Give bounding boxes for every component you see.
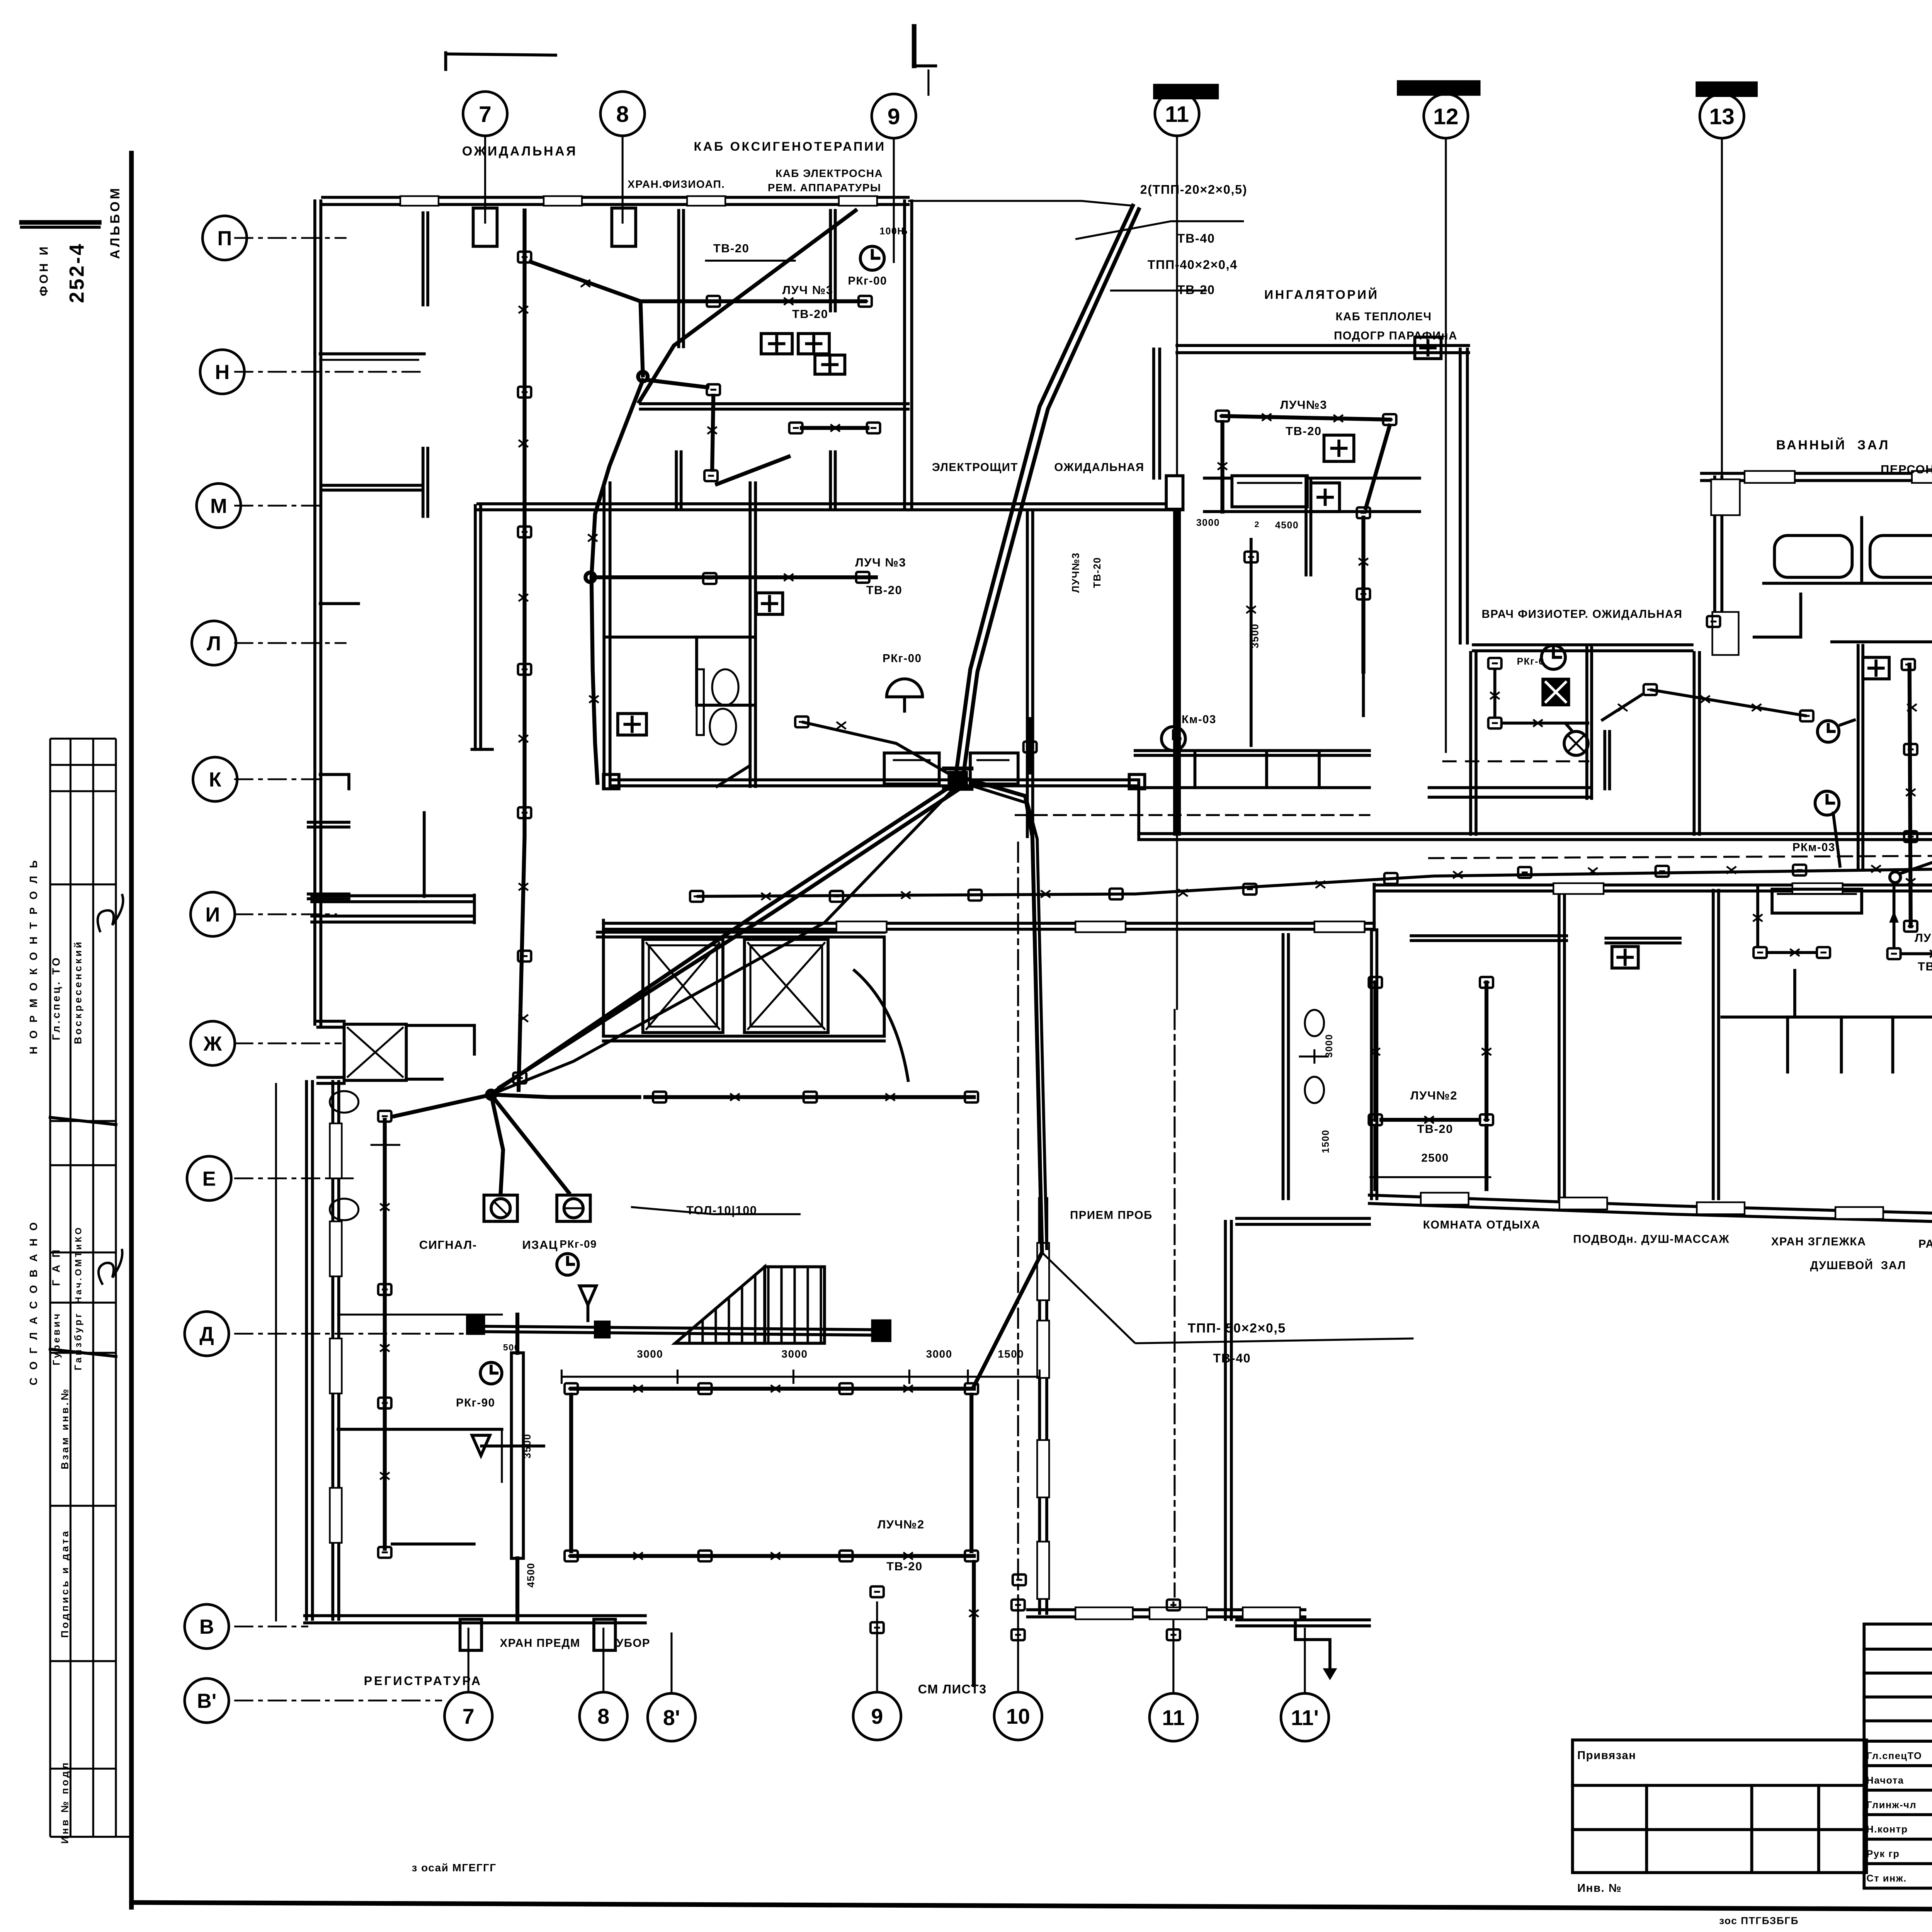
svg-text:ПОДОГР ПАРАФИнА: ПОДОГР ПАРАФИнА: [1334, 330, 1458, 342]
svg-text:ОЖИДАЛЬНАЯ: ОЖИДАЛЬНАЯ: [1054, 461, 1144, 474]
svg-text:11': 11': [1291, 1706, 1319, 1730]
window bay rect: [1772, 889, 1862, 913]
svg-text:ТПП-40×2×0,4: ТПП-40×2×0,4: [1148, 258, 1238, 272]
svg-text:И: И: [206, 903, 220, 926]
svg-text:100Њ: 100Њ: [879, 226, 908, 237]
svg-text:ТПП- 50×2×0,5: ТПП- 50×2×0,5: [1188, 1321, 1286, 1336]
svg-text:ТВ-20: ТВ-20: [1177, 283, 1215, 297]
svg-text:ХРАН ЗГЛЕЖКА: ХРАН ЗГЛЕЖКА: [1771, 1235, 1866, 1248]
svg-text:4500: 4500: [525, 1563, 536, 1588]
svg-text:Инв № подл: Инв № подл: [59, 1760, 70, 1844]
partition electroshield x=862: [1027, 510, 1028, 837]
bath hall right wiring: [1910, 665, 1911, 926]
svg-text:ЛУЧ№3: ЛУЧ№3: [1070, 552, 1081, 593]
svg-text:Н: Н: [215, 361, 230, 384]
svg-text:2: 2: [1254, 519, 1260, 529]
bath hall outline: [1702, 480, 1932, 481]
svg-text:13: 13: [1709, 104, 1735, 129]
svg-text:Начота: Начота: [1866, 1775, 1904, 1786]
corridor dashed duct line: [1016, 815, 1369, 815]
dim 2500: [1369, 1177, 1491, 1177]
svg-text:Л: Л: [207, 632, 221, 655]
bottom-right block bottom wall: [1369, 1195, 1932, 1216]
inhalatory block: [1177, 352, 1469, 353]
svg-text:ТВ-20: ТВ-20: [1286, 424, 1322, 438]
node at lower-left: [493, 786, 956, 1094]
svg-text:ХРАН ПРЕДМ: ХРАН ПРЕДМ: [500, 1637, 580, 1650]
svg-text:С О Г Л А С О В А Н О: С О Г Л А С О В А Н О: [27, 1220, 39, 1385]
central zone left wall x=508: [604, 483, 605, 786]
svg-text:РКг-0: РКг-0: [1517, 656, 1545, 667]
sheet bottom border: [131, 1903, 1932, 1912]
svg-text:Гл.спец. ТО: Гл.спец. ТО: [50, 956, 62, 1040]
svg-text:ОЖИДАЛЬНАЯ: ОЖИДАЛЬНАЯ: [462, 144, 578, 158]
signal room devices: [491, 1095, 503, 1193]
svg-text:П: П: [217, 227, 232, 250]
svg-text:К: К: [209, 769, 222, 791]
lower mid-block partitions: [1559, 890, 1560, 1199]
wall under elevators: [604, 1041, 884, 1042]
left wing outer wall lower: [332, 1082, 333, 1619]
central zone bottom / corridor top wall: [612, 785, 1139, 786]
axis11 partition wall: [1174, 510, 1175, 834]
svg-text:ТВ-20: ТВ-20: [1918, 960, 1932, 973]
big diagonal cable from top right corner: [639, 211, 855, 402]
svg-text:М: М: [210, 495, 227, 517]
svg-text:11: 11: [1162, 1706, 1185, 1730]
corridor rails to stairs: [478, 1332, 884, 1335]
svg-text:3000: 3000: [1324, 1034, 1335, 1058]
svg-text:КОМНАТА ОТДЫХА: КОМНАТА ОТДЫХА: [1423, 1218, 1541, 1231]
svg-text:РКг-90: РКг-90: [456, 1396, 495, 1409]
svg-text:ПОДВОДн. ДУШ-МАССАЖ: ПОДВОДн. ДУШ-МАССАЖ: [1573, 1233, 1730, 1246]
svg-text:ВАННЫЙ ЗАЛ: ВАННЫЙ ЗАЛ: [1776, 437, 1890, 452]
svg-text:2(ТПП-20×2×0,5): 2(ТПП-20×2×0,5): [1140, 182, 1247, 196]
vrach band side walls: [1470, 653, 1471, 834]
svg-text:3000: 3000: [637, 1348, 663, 1360]
svg-text:Е: Е: [202, 1168, 216, 1190]
dome device РКг-00 central: [887, 679, 923, 697]
device cluster right of axis12: [1488, 658, 1502, 669]
wire on partition 862: [1029, 717, 1031, 774]
svg-text:3000: 3000: [1196, 518, 1220, 528]
svg-text:ТВ-20: ТВ-20: [1091, 557, 1103, 588]
chute room door jog: [406, 1025, 474, 1026]
dushevoy zal right wire cluster: [1890, 872, 1901, 883]
svg-text:ИНГАЛЯТОРИЙ: ИНГАЛЯТОРИЙ: [1264, 287, 1379, 302]
top corner marks: [446, 54, 556, 55]
left stamp table (rotated): [50, 739, 131, 1837]
partitions in KAB rooms top: [678, 211, 679, 347]
lower block partition x=1150: [1371, 930, 1372, 1199]
svg-text:РКм-03: РКм-03: [1173, 713, 1216, 726]
svg-text:РКг-09: РКг-09: [560, 1238, 597, 1250]
bath hall lower partitions: [1858, 645, 1859, 867]
svg-text:ЛУЧ№2: ЛУЧ№2: [878, 1518, 925, 1531]
bottom wall axis V: [305, 1622, 645, 1624]
2TPP cable pair diagonals to knot: [956, 206, 1133, 774]
svg-text:Взам инв.№: Взам инв.№: [59, 1387, 70, 1469]
WC fixtures central toilets: [697, 669, 738, 745]
vrach-fizioter band top wall: [1473, 650, 1692, 651]
svg-text:Инв. №: Инв. №: [1577, 1882, 1622, 1895]
svg-text:Гл.спецТО: Гл.спецТО: [1866, 1751, 1922, 1762]
svg-text:ЛУЧ№3: ЛУЧ№3: [1280, 398, 1327, 412]
svg-text:11: 11: [1165, 102, 1189, 127]
inhalatory window band: [1204, 478, 1420, 479]
svg-text:3000: 3000: [926, 1348, 952, 1360]
left wing partition y=1196: [338, 1429, 502, 1430]
electroshield band walls: [908, 509, 1183, 510]
svg-text:Привязан: Привязан: [1577, 1749, 1636, 1762]
left axis circles: [202, 216, 247, 260]
svg-text:Ж: Ж: [203, 1032, 222, 1055]
elevator shafts: [643, 939, 908, 1080]
svg-text:КАБ ОКСИГЕНОТЕРАПИИ: КАБ ОКСИГЕНОТЕРАПИИ: [694, 139, 886, 153]
left axis leader lines: [234, 238, 347, 238]
bottom axis vertical lines: [468, 1628, 469, 1691]
svg-text:Д: Д: [199, 1323, 214, 1346]
svg-text:Ст инж.: Ст инж.: [1866, 1873, 1906, 1884]
luch wires lower center: [571, 1388, 974, 1389]
window band walls in lower block: [1411, 940, 1566, 941]
luch wire bath area: [1650, 690, 1807, 716]
svg-text:Ганзбург: Ганзбург: [73, 1311, 83, 1370]
title block: [1864, 1624, 1932, 1888]
svg-text:9: 9: [871, 1704, 883, 1728]
svg-text:СМ ЛИСТ3: СМ ЛИСТ3: [918, 1682, 987, 1696]
svg-text:ИЗАЦ: ИЗАЦ: [522, 1238, 558, 1252]
svg-text:Н О Р М О К О Н Т Р О Л Ь: Н О Р М О К О Н Т Р О Л Ь: [27, 858, 39, 1054]
svg-text:8: 8: [616, 102, 629, 127]
svg-text:7: 7: [479, 102, 492, 127]
garbage-chute room axis Zh: [344, 1024, 406, 1080]
WC fixtures right toilets: [1299, 1010, 1328, 1103]
top outer wall: [323, 204, 908, 205]
wire to boxes below node: [649, 380, 707, 388]
bath tubs: [1754, 517, 1932, 637]
corridor under elevators wire: [645, 1097, 974, 1098]
svg-text:РЕМ. АППАРАТУРЫ: РЕМ. АППАРАТУРЫ: [768, 182, 881, 194]
svg-text:2500: 2500: [1421, 1151, 1449, 1164]
svg-text:Гуревич: Гуревич: [52, 1311, 62, 1365]
svg-text:9: 9: [888, 104, 900, 129]
svg-text:1500: 1500: [998, 1348, 1024, 1360]
svg-text:ТВ-20: ТВ-20: [886, 1560, 923, 1573]
long vertical riser wire axis7-8: [519, 211, 524, 1090]
svg-text:1500: 1500: [1321, 1129, 1331, 1153]
svg-text:АЛЬБОМ: АЛЬБОМ: [108, 186, 122, 259]
svg-text:Нач.ОМТиКО: Нач.ОМТиКО: [73, 1225, 83, 1303]
building walls: [276, 197, 1932, 1650]
svg-text:зос ПТГБЗБГБ: зос ПТГБЗБГБ: [1719, 1915, 1799, 1926]
svg-text:КАБ ЭЛЕКТРОСНА: КАБ ЭЛЕКТРОСНА: [776, 167, 883, 179]
corridor bottom wall: [604, 929, 1374, 930]
leader lines of 2TPP labels: [908, 201, 1133, 206]
shower comb: [1722, 971, 1932, 1072]
svg-text:3000: 3000: [781, 1348, 808, 1360]
I-corridor wall band left: [312, 901, 474, 902]
svg-text:Рук гр: Рук гр: [1866, 1849, 1900, 1859]
svg-text:252-4: 252-4: [65, 242, 88, 303]
bottom wall of KAB room row: [641, 409, 908, 410]
plus-boxes (sockets): [618, 333, 1932, 1004]
left outer wall lower segment: [306, 1082, 307, 1619]
svg-text:ЛУЧ №3: ЛУЧ №3: [855, 556, 906, 569]
dushevoy zal left wire cluster: [1757, 884, 1759, 947]
top-left room partitions: [320, 354, 424, 355]
album stamp top-left: [22, 186, 123, 303]
sheet frame left border: [131, 153, 132, 1907]
svg-text:ДУШЕВОЙ ЗАЛ: ДУШЕВОЙ ЗАЛ: [1810, 1259, 1906, 1272]
staircase: [675, 1267, 825, 1343]
svg-text:В: В: [199, 1616, 214, 1638]
corridor trunk wire: [697, 869, 1932, 896]
wire row E to knot: [802, 722, 950, 774]
svg-text:ВРАЧ ФИЗИОТЕР. ОЖИДАЛЬНАЯ: ВРАЧ ФИЗИОТЕР. ОЖИДАЛЬНАЯ: [1481, 608, 1682, 621]
svg-text:РЕГИСТРАТУРА: РЕГИСТРАТУРА: [364, 1674, 482, 1688]
svg-text:ТВ-20: ТВ-20: [1417, 1122, 1453, 1136]
svg-text:РАЗДЕВАЛКА: РАЗДЕВАЛКА: [1918, 1238, 1932, 1250]
svg-text:Подпись и дата: Подпись и дата: [59, 1529, 70, 1638]
svg-text:В': В': [197, 1690, 216, 1713]
svg-text:500: 500: [503, 1342, 520, 1352]
svg-text:ЭЛЕКТРОЩИТ: ЭЛЕКТРОЩИТ: [932, 461, 1018, 474]
svg-text:ТВ-20: ТВ-20: [866, 583, 903, 597]
svg-text:Глинж-чл: Глинж-чл: [1866, 1799, 1917, 1810]
knot (cable vault): [947, 771, 968, 785]
trunk fan down-left from knot: [493, 783, 956, 1092]
dim row 3000x3 1500: [561, 1376, 1039, 1377]
svg-text:ЛУЧ№2: ЛУЧ№2: [1915, 931, 1932, 944]
diagonal from riser to node: [531, 262, 641, 301]
svg-text:РКг-00: РКг-00: [883, 652, 922, 665]
svg-text:Г А П: Г А П: [50, 1248, 62, 1286]
lower wing corner wire with arrow: [1013, 1575, 1026, 1585]
svg-text:ХРАН.ФИЗИОАП.: ХРАН.ФИЗИОАП.: [628, 178, 725, 190]
svg-text:10: 10: [1006, 1704, 1030, 1728]
luch3 wire inhalatory: [1223, 416, 1390, 420]
svg-text:ЛУЧ №3: ЛУЧ №3: [782, 283, 833, 297]
svg-text:ТВ-40: ТВ-40: [1177, 231, 1215, 245]
left wing inner partitions: [308, 898, 349, 900]
svg-text:8': 8': [663, 1706, 680, 1730]
svg-text:Н.контр: Н.контр: [1866, 1824, 1908, 1835]
vrach band wiring: [1442, 761, 1589, 762]
svg-text:КАБ ТЕПЛОЛЕЧ: КАБ ТЕПЛОЛЕЧ: [1336, 310, 1432, 323]
central zone top wall y=427: [478, 509, 908, 510]
riser rectangle (cable shaft): [512, 1353, 524, 1558]
trunk to lower right: [968, 779, 1042, 1386]
svg-text:ЛУЧ№2: ЛУЧ№2: [1410, 1088, 1458, 1102]
svg-text:РКм-03: РКм-03: [1793, 841, 1835, 854]
K-axis cabinet lines: [308, 827, 349, 828]
left outer wall upper: [315, 201, 316, 1024]
svg-text:РКг-00: РКг-00: [848, 274, 887, 287]
node wires upper-left room: [641, 301, 865, 376]
wall pilasters axis7 axis8: [473, 208, 497, 247]
WC fixtures lower-left block: [330, 1091, 400, 1220]
upper right clock + label area: [861, 246, 884, 270]
wire row D y=483: [585, 573, 595, 582]
axis 10 / 11 dashed continuation: [1018, 843, 1019, 1597]
svg-text:ПРИЕМ ПРОБ: ПРИЕМ ПРОБ: [1070, 1209, 1153, 1222]
mid-left partitions: [320, 603, 359, 604]
svg-text:з осай МГЕГГГ: з осай МГЕГГГ: [412, 1862, 496, 1874]
left wire from dim row: [1251, 538, 1252, 747]
РКг-90 device: [480, 1362, 502, 1384]
top axis circles and bars: [1153, 84, 1219, 99]
svg-text:12: 12: [1433, 104, 1458, 129]
svg-text:3500: 3500: [1249, 623, 1260, 648]
svg-text:ФОН И: ФОН И: [37, 244, 51, 296]
toilets central: [607, 636, 753, 638]
closet band along corridor top: [884, 753, 939, 784]
svg-text:8: 8: [597, 1704, 609, 1728]
wall window pilasters: [330, 196, 1932, 1619]
svg-text:ТВ-20: ТВ-20: [792, 307, 828, 321]
elevator lobby walls: [597, 937, 884, 938]
luch2 right block wires: [1375, 982, 1376, 1120]
bottom axis circles: [444, 1692, 492, 1740]
top axis vertical lines: [485, 136, 486, 224]
right vertical wall x=760 (axis9 wing): [904, 201, 905, 507]
svg-text:7: 7: [463, 1704, 474, 1728]
svg-text:Воскресенский: Воскресенский: [72, 940, 83, 1044]
svg-text:СИГНАЛ-: СИГНАЛ-: [419, 1238, 477, 1252]
svg-text:ПЕРСОНАЛА: ПЕРСОНАЛА: [1881, 463, 1932, 476]
lower wing walls: [1039, 1199, 1040, 1613]
wires to bottom axis circles 9 10: [871, 1587, 884, 1597]
svg-text:ТВ-20: ТВ-20: [713, 241, 750, 255]
svg-text:4500: 4500: [1275, 520, 1299, 531]
svg-text:3500: 3500: [521, 1434, 533, 1459]
corridor top wall right part: [1139, 839, 1932, 840]
svg-text:ТВ-40: ТВ-40: [1213, 1351, 1251, 1365]
svg-text:УБОР: УБОР: [616, 1637, 650, 1650]
